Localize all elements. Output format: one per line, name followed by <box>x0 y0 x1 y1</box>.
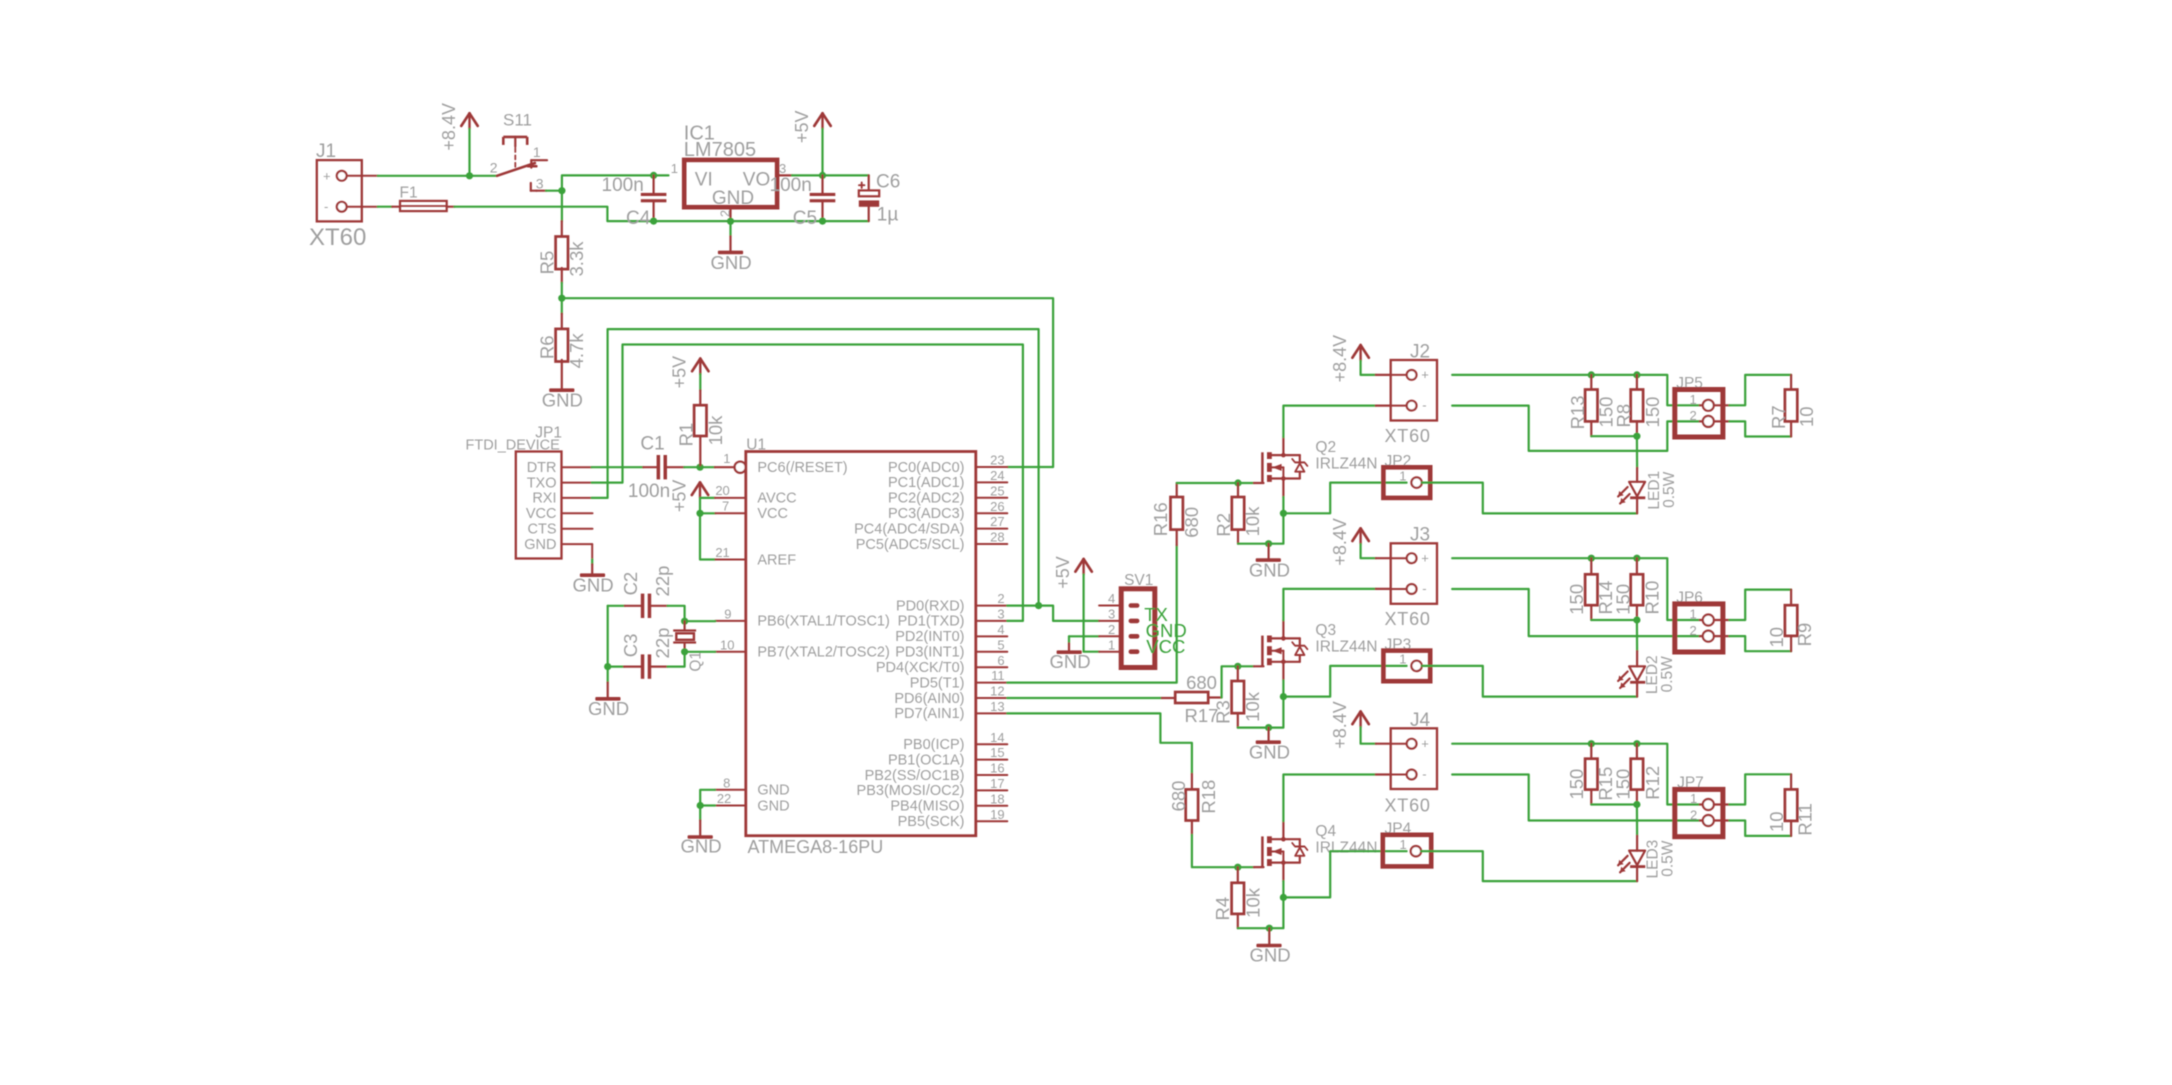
wire JP7 pin2 to R11 bottom <box>1714 819 1730 821</box>
supply +5V (SV1) <box>1075 559 1083 572</box>
svg-text:+8.4V: +8.4V <box>439 103 459 151</box>
svg-text:26: 26 <box>990 499 1004 514</box>
svg-text:DTR: DTR <box>527 460 557 476</box>
svg-text:4: 4 <box>997 622 1004 637</box>
svg-text:R5: R5 <box>536 251 557 275</box>
svg-text:R8: R8 <box>1613 404 1634 428</box>
svg-text:10k: 10k <box>1242 691 1263 722</box>
svg-text:GND: GND <box>1250 945 1291 966</box>
wire divider tap to PC0 <box>562 298 1053 467</box>
svg-text:25: 25 <box>990 483 1004 498</box>
led LED3 0.5W <box>1636 805 1638 836</box>
svg-text:XT60: XT60 <box>1385 609 1431 629</box>
wire Q2 drain to J2 minus <box>1283 406 1375 437</box>
junction ground ch1 <box>1265 540 1272 547</box>
junction Q4 source <box>1280 894 1287 901</box>
svg-text:+8.4V: +8.4V <box>1330 518 1350 566</box>
capacitor C4 100n <box>650 172 657 179</box>
wire Q3 source to JP3 <box>1283 666 1406 697</box>
svg-text:+: + <box>1421 367 1429 382</box>
svg-text:PB3(MOSI/OC2): PB3(MOSI/OC2) <box>857 783 965 799</box>
svg-text:14: 14 <box>990 730 1004 745</box>
svg-text:1: 1 <box>1108 637 1115 652</box>
svg-text:PC5(ADC5/SCL): PC5(ADC5/SCL) <box>856 537 965 553</box>
junction ground ch2 <box>1265 724 1272 731</box>
svg-text:F1: F1 <box>400 185 418 202</box>
junction R14 top <box>1588 555 1595 562</box>
supply +5V (AVCC) <box>692 482 700 495</box>
wire J4- to JP7 pin2 <box>1452 775 1700 821</box>
resistor R8 150 <box>1636 375 1638 390</box>
svg-text:+: + <box>323 169 331 184</box>
svg-text:3: 3 <box>536 175 544 191</box>
svg-text:1: 1 <box>1399 468 1406 483</box>
ground below R4 <box>1268 928 1270 944</box>
svg-text:PB7(XTAL2/TOSC2): PB7(XTAL2/TOSC2) <box>757 645 889 661</box>
svg-text:27: 27 <box>990 514 1004 529</box>
ground at SV1 <box>1069 635 1099 637</box>
wire J1+ to switch <box>378 175 497 177</box>
svg-text:TXO: TXO <box>527 475 557 491</box>
wire Q2 source to JP2 <box>1283 483 1406 514</box>
svg-text:+: + <box>1421 736 1429 751</box>
junction C5 top <box>819 172 826 179</box>
wire to PB7 <box>685 651 716 653</box>
svg-text:+5V: +5V <box>670 356 690 389</box>
svg-text:10k: 10k <box>705 415 726 446</box>
svg-text:3: 3 <box>779 161 786 176</box>
svg-text:3: 3 <box>1108 607 1115 622</box>
svg-text:C2: C2 <box>620 572 641 596</box>
wire switch pin3 to node <box>546 190 562 192</box>
wire PD0 stub <box>1007 604 1038 606</box>
svg-text:Q2: Q2 <box>1315 439 1336 456</box>
svg-text:PB2(SS/OC1B): PB2(SS/OC1B) <box>865 768 965 784</box>
svg-text:Q3: Q3 <box>1315 622 1336 639</box>
svg-text:150: 150 <box>1642 397 1663 428</box>
resistor R7 10 <box>1785 390 1797 422</box>
ground below C3 <box>607 667 609 683</box>
svg-text:1: 1 <box>1399 837 1406 852</box>
svg-text:R9: R9 <box>1794 623 1815 647</box>
svg-text:16: 16 <box>990 761 1004 776</box>
svg-text:1µ: 1µ <box>877 204 899 225</box>
svg-text:VI: VI <box>695 169 713 190</box>
svg-text:CTS: CTS <box>528 522 557 538</box>
svg-text:GND: GND <box>1049 651 1090 672</box>
capacitor C1 100n <box>643 466 656 468</box>
svg-text:R3: R3 <box>1212 700 1233 724</box>
junction LED2 anode <box>1633 616 1640 623</box>
resistor R17 680 <box>1162 697 1175 699</box>
svg-text:0.5W: 0.5W <box>1661 471 1678 508</box>
junction R13 top <box>1588 371 1595 378</box>
svg-text:PD7(AIN1): PD7(AIN1) <box>894 706 964 722</box>
svg-text:3.3k: 3.3k <box>566 241 587 277</box>
wire PD5 to R16 <box>1007 545 1176 682</box>
capacitor C3 22p <box>607 606 609 667</box>
svg-text:4.7k: 4.7k <box>566 333 587 369</box>
wire to PC6 reset pin <box>700 466 715 468</box>
svg-text:10: 10 <box>720 638 734 653</box>
junction LED3 anode <box>1633 801 1640 808</box>
wire Q4 source to ground <box>1282 881 1284 897</box>
svg-text:ATMEGA8-16PU: ATMEGA8-16PU <box>748 837 884 857</box>
ground below R3 <box>1267 728 1269 741</box>
junction switched +8.4V <box>558 187 565 194</box>
svg-text:GND: GND <box>1249 741 1290 762</box>
wire PD7 to R18 <box>1007 713 1192 774</box>
crystal Q1 <box>683 621 685 629</box>
resistor R6 4.7k <box>561 298 563 313</box>
svg-text:2: 2 <box>1108 622 1115 637</box>
svg-text:PB6(XTAL1/TOSC1): PB6(XTAL1/TOSC1) <box>757 614 889 630</box>
resistor R15 150 <box>1590 744 1592 759</box>
svg-text:XT60: XT60 <box>1385 795 1431 815</box>
svg-text:PD3(INT1): PD3(INT1) <box>895 645 964 661</box>
IC1 pin2 to ground <box>729 207 731 221</box>
junction R4 top <box>1234 864 1241 871</box>
junction Q3 source <box>1280 693 1287 700</box>
wire JP4 to LED3 cathode <box>1421 851 1637 881</box>
svg-text:23: 23 <box>990 453 1004 468</box>
svg-text:0.5W: 0.5W <box>1659 656 1676 693</box>
svg-text:680: 680 <box>1168 781 1189 812</box>
svg-text:2: 2 <box>1689 623 1696 638</box>
junction R8 top <box>1633 371 1640 378</box>
svg-text:10: 10 <box>1766 811 1787 832</box>
transistor Q3 IRLZ44N <box>1261 636 1264 666</box>
svg-text:150: 150 <box>1566 584 1587 615</box>
U1 ground pins 8 22 <box>715 789 746 791</box>
wire JP5 pin2 to R7 bottom <box>1714 420 1730 422</box>
wire LED anode rail ch2 <box>1591 619 1637 621</box>
svg-text:100n: 100n <box>628 481 670 502</box>
svg-text:R4: R4 <box>1212 897 1233 921</box>
svg-text:17: 17 <box>990 776 1004 791</box>
junction XTAL1 <box>681 618 688 625</box>
svg-text:6: 6 <box>997 653 1004 668</box>
svg-text:GND: GND <box>1249 559 1290 580</box>
junction divider tap <box>558 295 565 302</box>
svg-text:+5V: +5V <box>669 480 689 513</box>
svg-text:PD0(RXD): PD0(RXD) <box>896 598 964 614</box>
svg-text:R16: R16 <box>1150 502 1171 536</box>
svg-text:3: 3 <box>997 607 1004 622</box>
svg-text:+5V: +5V <box>1053 556 1073 589</box>
resistor R18 680 <box>1191 774 1193 790</box>
supply +5V (regulator output) <box>814 113 822 126</box>
junction R15 top <box>1588 740 1595 747</box>
resistor R3 10k <box>1237 666 1239 681</box>
resistor R16 680 <box>1176 530 1178 546</box>
svg-text:PC1(ADC1): PC1(ADC1) <box>888 475 965 491</box>
wire R17 to gate Q3 <box>1222 666 1254 697</box>
svg-text:+8.4V: +8.4V <box>1330 335 1350 383</box>
svg-text:GND: GND <box>757 783 789 799</box>
wire JP7 pin1 to R11 <box>1714 803 1730 805</box>
junction reset node <box>696 464 703 471</box>
junction Q2 source <box>1280 510 1287 517</box>
svg-text:VCC: VCC <box>757 506 788 522</box>
svg-text:XT60: XT60 <box>309 224 366 251</box>
svg-text:GND: GND <box>542 390 583 411</box>
svg-text:VCC: VCC <box>1146 636 1185 657</box>
svg-text:1: 1 <box>1689 607 1696 622</box>
svg-text:150: 150 <box>1566 769 1587 800</box>
wire R18 to gate Q4 <box>1192 835 1254 867</box>
wire J3+ rail <box>1452 558 1700 620</box>
svg-text:150: 150 <box>1613 584 1634 615</box>
wires AVCC VCC AREF <box>700 498 715 560</box>
wire RXI to PD0 <box>592 329 1039 605</box>
svg-text:R1: R1 <box>676 423 697 447</box>
svg-text:R2: R2 <box>1213 513 1234 537</box>
junction R2 top <box>1234 479 1241 486</box>
svg-text:2: 2 <box>1689 408 1696 423</box>
svg-text:PD2(INT0): PD2(INT0) <box>895 629 964 645</box>
wire battery minus to ground rail <box>454 207 868 221</box>
svg-text:+5V: +5V <box>792 111 812 144</box>
resistor R2 10k <box>1237 483 1239 497</box>
junction R3 top <box>1234 663 1241 670</box>
resistor R9 10 <box>1785 605 1797 636</box>
resistor R13 150 <box>1590 375 1592 390</box>
svg-text:PB4(MISO): PB4(MISO) <box>890 799 964 815</box>
svg-text:Q1: Q1 <box>687 651 704 672</box>
svg-text:VCC: VCC <box>526 506 557 522</box>
svg-text:IRLZ44N: IRLZ44N <box>1315 455 1377 472</box>
resistor R1 10k <box>692 359 700 372</box>
svg-text:19: 19 <box>990 807 1004 822</box>
svg-text:0.5W: 0.5W <box>1660 840 1677 877</box>
wire Q4 source to JP4 <box>1283 851 1406 897</box>
svg-text:11: 11 <box>991 668 1005 683</box>
svg-text:21: 21 <box>715 545 729 560</box>
junction XTAL2 <box>681 648 688 655</box>
svg-text:PC2(ADC2): PC2(ADC2) <box>888 491 965 507</box>
junction ground ch3 <box>1266 925 1273 932</box>
svg-text:-: - <box>1422 397 1426 412</box>
svg-text:GND: GND <box>757 798 789 814</box>
wire Q2 source to ground <box>1282 497 1284 513</box>
wire gate Q2 <box>1177 482 1254 484</box>
svg-text:680: 680 <box>1186 672 1217 693</box>
svg-text:PC4(ADC4/SDA): PC4(ADC4/SDA) <box>854 521 964 537</box>
svg-text:R6: R6 <box>536 335 557 359</box>
svg-text:1: 1 <box>671 161 678 176</box>
svg-text:GND: GND <box>710 252 751 273</box>
svg-text:GND: GND <box>588 698 629 719</box>
wire JP6 pin2 to R9 bottom <box>1714 635 1730 637</box>
svg-text:1: 1 <box>533 144 541 160</box>
capacitor C6 1u polarized <box>868 175 870 190</box>
svg-text:AVCC: AVCC <box>757 491 796 507</box>
svg-text:22p: 22p <box>652 628 673 659</box>
svg-text:2: 2 <box>997 591 1004 606</box>
wire J3- to JP6 pin2 <box>1452 589 1700 636</box>
resistor R10 150 <box>1636 558 1638 574</box>
svg-text:IRLZ44N: IRLZ44N <box>1315 839 1377 856</box>
ground below IC1 <box>729 221 731 236</box>
svg-text:1: 1 <box>1690 791 1697 806</box>
svg-text:PB5(SCK): PB5(SCK) <box>898 814 965 830</box>
svg-text:22: 22 <box>717 791 731 806</box>
wire LED anode rail ch1 <box>1591 435 1637 437</box>
svg-text:IRLZ44N: IRLZ44N <box>1315 639 1377 656</box>
svg-text:C1: C1 <box>640 433 664 454</box>
svg-text:15: 15 <box>990 745 1004 760</box>
svg-text:100n: 100n <box>602 175 644 196</box>
svg-text:7: 7 <box>722 499 729 514</box>
junction PD0 <box>1035 602 1042 609</box>
svg-text:1: 1 <box>1399 652 1406 667</box>
svg-text:-: - <box>324 199 328 214</box>
resistor R4 10k <box>1237 867 1239 883</box>
pin 1 inverting bubble <box>735 462 746 473</box>
wire Q3 source to ground <box>1282 680 1284 696</box>
svg-text:GND: GND <box>572 575 613 596</box>
svg-text:PD1(TXD): PD1(TXD) <box>898 614 965 630</box>
svg-text:680: 680 <box>1181 507 1202 538</box>
led LED1 0.5W <box>1636 436 1638 468</box>
wire J4+ rail <box>1452 744 1700 805</box>
wire Q3 drain to J3 minus <box>1283 589 1375 620</box>
svg-text:28: 28 <box>990 530 1004 545</box>
wire PD6 to R17 <box>1007 697 1162 699</box>
svg-text:GND: GND <box>524 537 556 553</box>
U1 right pins <box>976 466 1008 468</box>
svg-text:10: 10 <box>1766 627 1787 648</box>
svg-text:2: 2 <box>490 160 498 176</box>
wire to PB6 <box>685 620 716 622</box>
svg-text:C5: C5 <box>793 208 817 229</box>
wire JP6 pin1 to R9 <box>1714 619 1730 621</box>
ground below U1 <box>699 806 701 821</box>
svg-text:18: 18 <box>990 791 1004 806</box>
U1 pins 9 10 <box>715 620 746 622</box>
svg-text:-: - <box>1422 581 1426 596</box>
svg-text:C4: C4 <box>626 208 651 229</box>
svg-text:J1: J1 <box>316 141 336 162</box>
svg-text:4: 4 <box>1108 591 1115 606</box>
svg-text:R11: R11 <box>1795 803 1816 836</box>
resistor R11 10 <box>1785 789 1797 821</box>
svg-text:10k: 10k <box>1243 887 1264 918</box>
svg-text:22p: 22p <box>652 566 673 597</box>
wire DTR to C1 <box>592 466 644 468</box>
svg-text:PD6(AIN0): PD6(AIN0) <box>894 691 964 707</box>
svg-text:R18: R18 <box>1198 780 1219 814</box>
ground below JP1 <box>591 544 593 559</box>
svg-text:PD4(XCK/T0): PD4(XCK/T0) <box>876 660 965 676</box>
junction R12 top <box>1633 740 1640 747</box>
resistor R12 150 <box>1636 744 1638 759</box>
svg-text:GND: GND <box>680 836 721 857</box>
wire JP5 pin1 to R7 <box>1714 404 1730 406</box>
supply +8.4V (input) <box>461 113 469 126</box>
svg-text:XT60: XT60 <box>1385 426 1431 446</box>
svg-text:PC6(/RESET): PC6(/RESET) <box>757 460 847 476</box>
svg-text:1: 1 <box>1689 392 1696 407</box>
svg-text:PB1(OC1A): PB1(OC1A) <box>888 752 965 768</box>
svg-text:1: 1 <box>723 451 730 466</box>
svg-text:PC3(ADC3): PC3(ADC3) <box>888 506 965 522</box>
svg-text:9: 9 <box>724 607 731 622</box>
supply +8.4V (J3) <box>1352 528 1360 541</box>
svg-text:S11: S11 <box>503 111 532 130</box>
ground below R2 <box>1267 544 1269 559</box>
wire R2 bottom to ground <box>1238 513 1283 543</box>
connector J1 (XT60 battery input) <box>317 160 362 221</box>
svg-text:20: 20 <box>715 483 729 498</box>
svg-text:5: 5 <box>997 637 1004 652</box>
svg-text:LM7805: LM7805 <box>684 139 756 161</box>
resistor R14 150 <box>1590 558 1592 574</box>
svg-text:150: 150 <box>1613 769 1634 800</box>
wire TXO to PD1 <box>592 345 1023 621</box>
svg-text:C3: C3 <box>620 634 641 658</box>
svg-text:RXI: RXI <box>532 491 556 507</box>
capacitor C2 22p <box>608 605 625 607</box>
svg-text:PD5(T1): PD5(T1) <box>910 675 965 691</box>
wire J2+ rail <box>1452 375 1700 405</box>
wire Q4 drain to J4 minus <box>1283 775 1375 822</box>
junction LED1 anode <box>1633 433 1640 440</box>
wire LED anode rail ch3 <box>1591 803 1637 805</box>
supply +8.4V (J4) <box>1352 712 1360 725</box>
svg-text:GND: GND <box>712 188 754 209</box>
svg-text:10k: 10k <box>1242 506 1263 537</box>
svg-text:2: 2 <box>1690 807 1697 822</box>
led LED2 0.5W <box>1636 620 1638 651</box>
junction +8.4V node <box>466 172 473 179</box>
svg-text:PC0(ADC0): PC0(ADC0) <box>888 460 965 476</box>
svg-text:8: 8 <box>723 775 730 790</box>
svg-text:24: 24 <box>990 468 1004 483</box>
svg-text:Q4: Q4 <box>1315 823 1336 840</box>
wire IC1 VO to +5V rail <box>777 174 792 176</box>
junction R10 top <box>1633 555 1640 562</box>
svg-text:12: 12 <box>990 684 1004 699</box>
svg-text:R12: R12 <box>1642 766 1663 800</box>
resistor R5 3.3k <box>561 221 563 236</box>
wire J2- to JP5 pin2 <box>1452 406 1700 451</box>
transistor Q4 IRLZ44N <box>1261 836 1264 866</box>
ground below R6 <box>561 360 563 389</box>
svg-text:R10: R10 <box>1641 581 1662 615</box>
wire switched +8.4V to IC1 VI <box>562 175 669 190</box>
supply +8.4V (J2) <box>1352 345 1360 358</box>
wire PD0 to SV1 TX <box>1039 606 1100 621</box>
svg-text:AREF: AREF <box>757 552 796 568</box>
wire R3 bottom to ground <box>1238 697 1284 728</box>
wire JP3 to LED2 cathode <box>1422 666 1637 697</box>
transistor Q2 IRLZ44N <box>1261 452 1264 482</box>
wire divider feed <box>561 191 563 221</box>
svg-text:+: + <box>1421 550 1429 565</box>
svg-text:-: - <box>1422 766 1426 781</box>
svg-text:PB0(ICP): PB0(ICP) <box>903 737 964 753</box>
capacitor C5 100n <box>821 175 823 193</box>
svg-text:R13: R13 <box>1567 395 1588 429</box>
svg-text:C6: C6 <box>876 172 900 193</box>
svg-text:R7: R7 <box>1768 405 1789 429</box>
svg-text:100n: 100n <box>770 175 812 196</box>
svg-text:13: 13 <box>990 699 1004 714</box>
wire R4 bottom to ground <box>1238 898 1284 928</box>
svg-text:10: 10 <box>1796 406 1817 427</box>
